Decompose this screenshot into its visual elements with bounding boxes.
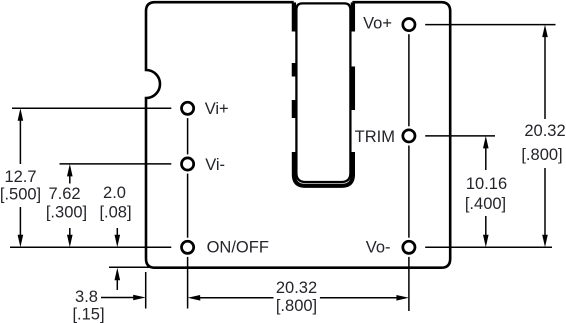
svg-text:Vo+: Vo+ bbox=[363, 15, 392, 33]
svg-text:7.62: 7.62 bbox=[48, 185, 80, 203]
svg-text:2.0: 2.0 bbox=[103, 184, 126, 202]
svg-text:[.500]: [.500] bbox=[0, 186, 41, 204]
svg-text:[.300]: [.300] bbox=[46, 204, 87, 222]
svg-text:TRIM: TRIM bbox=[355, 128, 395, 146]
svg-text:[.800]: [.800] bbox=[521, 146, 562, 164]
svg-text:ON/OFF: ON/OFF bbox=[207, 239, 269, 257]
svg-text:Vi-: Vi- bbox=[205, 156, 225, 174]
svg-text:Vi+: Vi+ bbox=[205, 100, 229, 118]
svg-text:3.8: 3.8 bbox=[75, 288, 98, 306]
svg-text:10.16: 10.16 bbox=[466, 175, 507, 193]
svg-text:20.32: 20.32 bbox=[276, 279, 317, 297]
svg-text:12.7: 12.7 bbox=[4, 168, 36, 186]
svg-text:[.08]: [.08] bbox=[99, 204, 131, 222]
svg-text:[.800]: [.800] bbox=[276, 297, 317, 315]
svg-text:[.15]: [.15] bbox=[72, 306, 104, 323]
svg-text:[.400]: [.400] bbox=[465, 195, 506, 213]
svg-text:Vo-: Vo- bbox=[366, 239, 391, 257]
svg-text:20.32: 20.32 bbox=[524, 122, 565, 140]
